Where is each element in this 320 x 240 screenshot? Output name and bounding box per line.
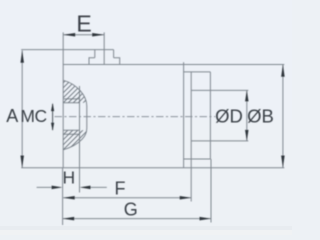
G right extension line <box>210 159 212 223</box>
mounting tab upper step <box>95 50 114 58</box>
svg-text:ØB: ØB <box>247 105 274 126</box>
F dimension line <box>63 197 191 199</box>
bore OD bottom line with extension <box>191 140 248 142</box>
section hatching upper <box>0 75 163 158</box>
E right arrow <box>92 33 104 37</box>
E dimension line <box>63 34 104 36</box>
OD dimension line <box>246 90 248 140</box>
svg-text:ØD: ØD <box>215 105 243 126</box>
H left extension (body edge extended for H F G) <box>62 168 64 225</box>
H dimension line tails <box>37 186 107 188</box>
G dimension line <box>63 218 211 220</box>
OB top arrow <box>281 65 285 77</box>
flange bottom edge <box>184 158 211 160</box>
body bottom edge (extends left to A, right to OB extension) <box>21 167 284 169</box>
svg-text:E: E <box>76 10 91 36</box>
G left arrow <box>63 217 74 221</box>
centerline <box>55 116 216 118</box>
thread major diameter lines <box>63 99 79 134</box>
F left arrow <box>63 196 74 200</box>
svg-text:G: G <box>124 199 138 219</box>
port break-out curve <box>63 80 87 150</box>
MC top arrow <box>51 103 54 111</box>
body top edge (extends right as OB top extension line) <box>63 64 284 66</box>
tab upper step top edge merged with A top extension line <box>21 49 113 51</box>
MC arrow shaft <box>52 104 54 130</box>
A bottom arrow <box>20 156 24 168</box>
E dimension extension lines <box>63 32 104 64</box>
OB dimension line <box>282 65 284 168</box>
OD top arrow <box>245 90 249 101</box>
A dimension line <box>21 50 23 167</box>
thread bore (minor) lines <box>63 103 79 131</box>
body right edge <box>183 62 185 168</box>
OD bottom arrow <box>245 130 249 141</box>
flange inner step line extended down as F extension <box>190 72 192 202</box>
tab lower step <box>89 58 120 65</box>
F right arrow <box>180 196 192 200</box>
H right arrow <box>80 186 91 190</box>
G right arrow <box>200 217 212 221</box>
MC bottom arrow <box>51 123 54 131</box>
thread end vertical merged with H right extension <box>79 86 81 193</box>
OB bottom arrow <box>281 156 285 168</box>
section hatching lower <box>35 75 163 158</box>
body left edge <box>62 65 64 168</box>
flange top edge <box>184 71 211 73</box>
svg-text:H: H <box>62 168 75 188</box>
svg-text:F: F <box>115 178 126 198</box>
H left arrow <box>52 186 63 190</box>
flange right edge <box>209 72 211 159</box>
arrowheads <box>20 33 284 220</box>
E left arrow <box>63 33 75 37</box>
bore OD top line with extension <box>191 89 248 91</box>
svg-text:MC: MC <box>20 106 46 126</box>
dimension labels <box>6 10 274 219</box>
A top arrow <box>20 50 24 62</box>
svg-text:A: A <box>6 106 18 126</box>
